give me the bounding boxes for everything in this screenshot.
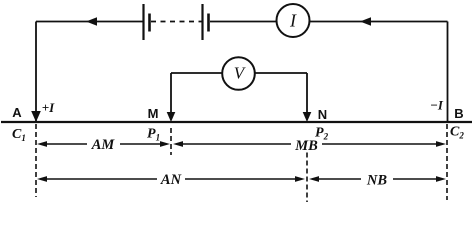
svg-text:NB: NB — [366, 173, 387, 189]
dimension NB shaft — [317, 178, 438, 180]
svg-text:P1: P1 — [147, 127, 160, 143]
svg-text:M: M — [148, 106, 159, 121]
dimension AN shaft — [45, 178, 297, 180]
wire right vertical to B — [447, 22, 449, 123]
svg-text:I: I — [289, 11, 297, 31]
svg-text:+I: +I — [42, 100, 55, 115]
battery BT2 — [203, 4, 209, 40]
svg-text:AN: AN — [160, 172, 182, 188]
wire left vertical A to wire — [35, 22, 37, 122]
ammeter A1 — [277, 4, 310, 37]
dim arrow AN left — [37, 176, 47, 182]
svg-text:C1: C1 — [12, 127, 26, 143]
wire ammeter to right corner — [310, 21, 448, 23]
dimension MB shaft — [181, 143, 438, 145]
dimension AM shaft — [45, 143, 162, 145]
contact arrow at M — [167, 112, 176, 122]
current arrow into A — [31, 111, 41, 122]
svg-text:B: B — [454, 106, 463, 121]
current arrow top-left — [86, 17, 97, 25]
svg-text:C2: C2 — [450, 125, 464, 141]
projection dashed line A — [35, 124, 37, 197]
battery BT1 — [144, 4, 150, 40]
dim arrow AN right — [295, 176, 305, 182]
wire battery to ammeter — [210, 21, 277, 23]
svg-text:AM: AM — [91, 137, 116, 153]
dim arrow AM right — [160, 141, 170, 147]
wire top-left horizontal — [36, 21, 144, 23]
projection dashed line M — [170, 128, 172, 155]
dim arrow NB left — [309, 176, 319, 182]
current arrow top-right — [360, 17, 371, 25]
svg-text:−I: −I — [430, 98, 444, 113]
dim arrow MB left — [173, 141, 183, 147]
voltmeter loop top left — [171, 72, 223, 74]
projection dashed line N — [306, 153, 308, 203]
svg-text:N: N — [318, 107, 327, 122]
contact arrow at N — [303, 112, 312, 122]
projection dashed line B — [446, 124, 448, 200]
main resistance wire A-B — [1, 121, 472, 123]
svg-text:V: V — [234, 64, 247, 83]
dim arrow AM left — [37, 141, 47, 147]
dim arrow MB right — [436, 141, 446, 147]
svg-text:MB: MB — [294, 138, 318, 154]
voltmeter V1 — [222, 57, 255, 90]
svg-text:A: A — [12, 105, 22, 120]
voltmeter loop right vertical N — [306, 73, 308, 113]
voltmeter loop top right — [255, 72, 308, 74]
wire dashed link between cells — [151, 21, 202, 23]
voltmeter loop left vertical M — [170, 73, 172, 113]
dim arrow NB right — [436, 176, 446, 182]
